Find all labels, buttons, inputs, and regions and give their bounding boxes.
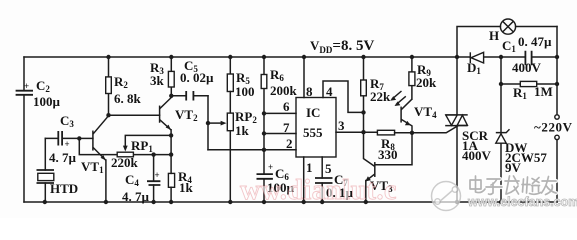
svg-text:5: 5: [325, 161, 332, 176]
thyristor SCR (triac symbol): [445, 57, 491, 202]
svg-text:~220V: ~220V: [534, 120, 573, 135]
transistor VT2: [160, 96, 198, 202]
piezo element HTD: [37, 138, 79, 202]
wire lamp branch: [457, 27, 557, 58]
wire left rail with C2 gap: [23, 57, 25, 202]
wire right rail: [556, 27, 558, 203]
pin 6: [264, 99, 296, 114]
potentiometer RP1 220k: [79, 135, 171, 170]
pin 3: [336, 118, 377, 133]
svg-text:9V: 9V: [505, 160, 522, 175]
resistor R7: [361, 57, 391, 166]
svg-text:400V: 400V: [462, 148, 492, 163]
resistor R5: [227, 57, 254, 113]
resistor R8: [377, 126, 458, 162]
svg-text:4: 4: [326, 84, 333, 99]
resistor R3: [150, 57, 174, 96]
transistor VT3: [365, 133, 412, 202]
svg-text:6. 8k: 6. 8k: [114, 91, 142, 106]
resistor R9: [409, 57, 437, 99]
wire top VDD rail: [24, 56, 557, 58]
svg-text:+: +: [65, 139, 70, 149]
svg-text:3: 3: [338, 118, 345, 133]
svg-text:4. 7µ: 4. 7µ: [49, 150, 77, 165]
svg-text:7: 7: [283, 120, 290, 135]
pin 8: [304, 57, 313, 99]
svg-text:+: +: [155, 170, 160, 180]
resistor R2: [106, 57, 142, 115]
transistor VT1: [79, 115, 108, 202]
capacitor C5: [171, 58, 214, 101]
svg-text:0. 02µ: 0. 02µ: [180, 70, 214, 85]
capacitor C6: [257, 162, 295, 202]
svg-text:HTD: HTD: [50, 181, 78, 196]
svg-text:6: 6: [283, 99, 290, 114]
svg-text:IC: IC: [306, 105, 320, 120]
svg-text:1M: 1M: [534, 84, 553, 99]
capacitor C7: [315, 172, 354, 202]
resistor R1: [501, 81, 557, 101]
svg-text:2: 2: [286, 136, 293, 151]
watermark logo circle: [432, 182, 461, 211]
svg-text:0. 47µ: 0. 47µ: [518, 34, 552, 49]
svg-text:8: 8: [306, 84, 313, 99]
zener diode DW: [496, 57, 548, 202]
svg-text:220k: 220k: [111, 155, 139, 170]
AC source terminals ~220V: [534, 115, 573, 140]
svg-text:+: +: [24, 81, 29, 91]
svg-text:1k: 1k: [235, 123, 250, 138]
pin 1: [304, 157, 313, 202]
svg-text:3k: 3k: [150, 73, 165, 88]
svg-text:4. 7µ: 4. 7µ: [122, 189, 150, 204]
capacitor C1: [502, 34, 552, 75]
svg-text:100µ: 100µ: [33, 94, 61, 109]
wire VT1 collector to VT2 base: [109, 114, 160, 116]
watermark text elecfans: [470, 176, 556, 195]
svg-text:H: H: [489, 28, 499, 43]
svg-text:330: 330: [378, 147, 398, 162]
capacitor C2: [16, 78, 61, 109]
IC 555 box: [296, 98, 336, 158]
svg-text:1: 1: [306, 160, 313, 175]
potentiometer RP2: [208, 109, 257, 202]
svg-text:ww.dianlut.c: ww.dianlut.c: [240, 175, 397, 206]
capacitor C3: [45, 113, 79, 165]
diode D1: [467, 52, 484, 76]
svg-text:1k: 1k: [179, 180, 194, 195]
svg-text:20k: 20k: [416, 75, 437, 90]
capacitor C4: [122, 155, 160, 204]
svg-text:200k: 200k: [270, 83, 298, 98]
pin 7: [264, 120, 296, 135]
resistor R6: [261, 57, 297, 174]
phototransistor VT4: [390, 91, 437, 133]
svg-text:www.elecfans.com: www.elecfans.com: [467, 195, 577, 209]
resistor R4: [168, 169, 193, 195]
wire C5 right down to pin2 line: [207, 96, 209, 150]
svg-text:22k: 22k: [370, 89, 391, 104]
pin 2: [208, 136, 296, 151]
pin 5: [322, 157, 332, 178]
pin 4: [323, 81, 364, 112]
svg-text:555: 555: [303, 125, 323, 140]
lamp H: [489, 19, 516, 43]
wire bottom ground rail: [24, 201, 557, 203]
svg-text:400V: 400V: [512, 60, 542, 75]
svg-text:100: 100: [235, 84, 255, 99]
svg-text:+: +: [268, 162, 273, 172]
